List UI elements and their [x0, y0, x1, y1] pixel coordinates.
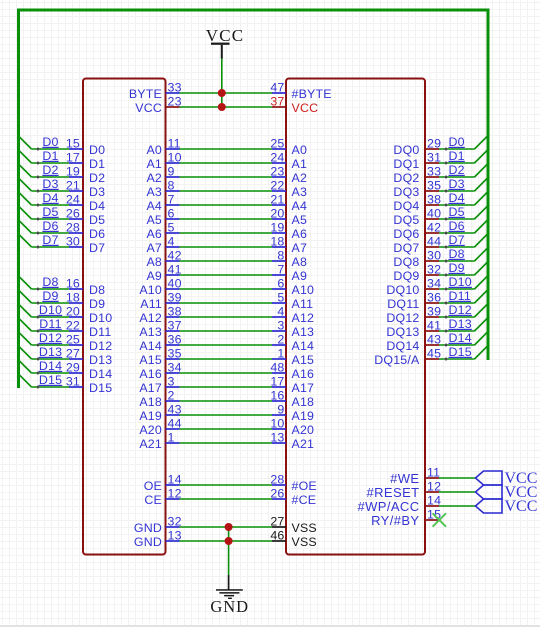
- svg-text:A14: A14: [292, 339, 315, 353]
- svg-text:A7: A7: [292, 241, 308, 255]
- svg-text:A0: A0: [146, 143, 162, 157]
- svg-text:DQ11: DQ11: [387, 297, 419, 311]
- svg-text:D3: D3: [449, 177, 465, 191]
- wire D2 to bus: [19, 164, 70, 179]
- svg-text:3: 3: [168, 375, 175, 389]
- net label D9: [42, 289, 58, 303]
- net label D2: [42, 163, 58, 177]
- pin 32 (GND) left IC: [134, 515, 182, 535]
- pin 26 (D5): [66, 207, 105, 227]
- wire D4 to bus: [19, 192, 70, 207]
- svg-text:D6: D6: [449, 219, 465, 233]
- svg-text:26: 26: [66, 207, 80, 221]
- svg-text:26: 26: [270, 487, 284, 501]
- svg-text:A2: A2: [292, 171, 308, 185]
- wire A10: [180, 288, 273, 290]
- pin 39 (DQ12): [386, 305, 441, 325]
- svg-text:20: 20: [270, 207, 284, 221]
- pin 32 (DQ9): [393, 263, 441, 283]
- net label D8: [449, 247, 465, 261]
- svg-text:D8: D8: [449, 247, 465, 261]
- pin 4 (A12) right IC: [272, 305, 314, 325]
- pin 3 (A13) right IC: [272, 319, 314, 339]
- svg-text:D4: D4: [42, 191, 58, 205]
- wire D11 to bus: [439, 291, 487, 305]
- svg-text:D3: D3: [89, 185, 105, 199]
- svg-text:D2: D2: [449, 163, 465, 177]
- wire D11 to bus: [19, 318, 70, 333]
- svg-text:D11: D11: [89, 325, 111, 339]
- net label D5: [42, 205, 58, 219]
- pin 6 (A10) right IC: [272, 277, 314, 297]
- pin 21 (A4) right IC: [270, 193, 307, 213]
- svg-text:D10: D10: [449, 275, 472, 289]
- svg-text:D8: D8: [42, 275, 58, 289]
- pin 12 (CE) left IC: [144, 487, 181, 507]
- svg-text:DQ2: DQ2: [393, 171, 419, 185]
- wire GND: [180, 540, 273, 542]
- svg-text:A4: A4: [146, 199, 162, 213]
- wire D10 to bus: [439, 277, 487, 291]
- pin 5 (A11) right IC: [272, 291, 313, 311]
- pin 36 (DQ11): [387, 291, 441, 311]
- wire D2 to bus: [439, 165, 487, 179]
- pin 5 (A6) left IC: [146, 221, 179, 241]
- svg-text:A5: A5: [146, 213, 162, 227]
- junction GND row2: [225, 537, 233, 545]
- svg-text:D14: D14: [449, 331, 472, 345]
- svg-text:GND: GND: [210, 597, 249, 616]
- wire GND vertical: [228, 527, 230, 575]
- net label D7: [42, 233, 58, 247]
- svg-text:D1: D1: [89, 157, 105, 171]
- svg-text:D9: D9: [449, 261, 465, 275]
- svg-text:18: 18: [66, 291, 80, 305]
- pin 25 (A0) right IC: [270, 137, 307, 157]
- svg-text:A3: A3: [292, 185, 308, 199]
- wire A16: [180, 372, 273, 374]
- svg-text:A2: A2: [146, 171, 162, 185]
- wire A7: [180, 246, 273, 248]
- svg-text:18: 18: [270, 235, 284, 249]
- svg-text:D9: D9: [42, 289, 58, 303]
- svg-text:22: 22: [66, 319, 80, 333]
- svg-text:A1: A1: [146, 157, 162, 171]
- svg-text:D13: D13: [39, 345, 62, 359]
- pin 25 (D12): [66, 333, 113, 353]
- wire D14 to bus: [19, 360, 70, 375]
- svg-text:11: 11: [427, 466, 440, 480]
- pin 28 (D6): [66, 221, 105, 241]
- pin 7 (A9) right IC: [272, 263, 307, 283]
- svg-text:D8: D8: [89, 283, 105, 297]
- wire A0: [180, 148, 273, 150]
- svg-text:VCC: VCC: [292, 101, 319, 115]
- svg-text:DQ3: DQ3: [393, 185, 419, 199]
- pin 42 (A8) left IC: [146, 249, 181, 269]
- pin 22 (D11): [66, 319, 112, 339]
- pin 30 (D7): [66, 235, 105, 255]
- svg-text:A9: A9: [292, 269, 308, 283]
- svg-text:46: 46: [270, 529, 284, 543]
- wire OE: [180, 484, 273, 486]
- pin 16 (D8): [66, 277, 105, 297]
- net label D3: [449, 177, 465, 191]
- svg-text:8: 8: [277, 249, 284, 263]
- ground symbol GND: [210, 575, 249, 616]
- wire A2: [180, 176, 273, 178]
- wire D1 to bus: [439, 151, 487, 165]
- svg-text:A10: A10: [292, 283, 315, 297]
- pin 18 (D9): [66, 291, 105, 311]
- wire VCC vertical: [221, 59, 223, 108]
- net label D0: [449, 135, 465, 149]
- net label D15: [449, 345, 472, 359]
- pin 7 (A4) left IC: [146, 193, 179, 213]
- pin 43 (DQ14): [386, 333, 441, 353]
- wire A20: [180, 428, 273, 430]
- pin 34 (A16) left IC: [139, 361, 181, 381]
- pin 43 (A19) left IC: [139, 403, 181, 423]
- pin 24 (D4): [66, 193, 105, 213]
- net label D15: [39, 373, 62, 387]
- net label D10: [39, 303, 62, 317]
- svg-text:GND: GND: [134, 535, 162, 549]
- pin 21 (D3): [66, 179, 105, 199]
- pin 3 (A17) left IC: [139, 375, 179, 395]
- svg-text:VCC: VCC: [135, 101, 162, 115]
- pin 41 (DQ13): [386, 319, 441, 339]
- svg-text:DQ14: DQ14: [386, 339, 419, 353]
- svg-text:A15: A15: [139, 353, 162, 367]
- wire CE: [180, 498, 273, 500]
- wire D8 to bus: [439, 249, 487, 263]
- svg-text:D13: D13: [89, 353, 112, 367]
- svg-text:D0: D0: [42, 135, 58, 149]
- net label D14: [39, 359, 62, 373]
- svg-text:D0: D0: [89, 143, 105, 157]
- svg-text:17: 17: [270, 375, 284, 389]
- svg-text:D14: D14: [39, 359, 62, 373]
- svg-text:4: 4: [168, 235, 175, 249]
- svg-text:31: 31: [66, 375, 80, 389]
- svg-text:27: 27: [270, 515, 284, 529]
- pin 20 (D10): [66, 305, 113, 325]
- svg-text:48: 48: [270, 361, 284, 375]
- svg-text:9: 9: [277, 403, 284, 417]
- svg-text:A20: A20: [139, 423, 162, 437]
- net label D13: [39, 345, 62, 359]
- wire A12: [180, 316, 273, 318]
- svg-text:BYTE: BYTE: [129, 87, 162, 101]
- pin 16 (A18) right IC: [270, 389, 314, 409]
- pin 17 (D1): [66, 151, 105, 171]
- svg-text:D7: D7: [89, 241, 105, 255]
- pin 23 (A2) right IC: [270, 165, 307, 185]
- svg-text:D15: D15: [89, 381, 112, 395]
- pin 33 (DQ2): [393, 165, 441, 185]
- wire A17: [180, 386, 273, 388]
- pin 1 (A21) left IC: [139, 431, 179, 451]
- svg-text:A5: A5: [292, 213, 308, 227]
- pin 24 (A1) right IC: [270, 151, 307, 171]
- svg-text:2: 2: [277, 333, 284, 347]
- wire D15 to bus: [19, 374, 70, 389]
- svg-text:D4: D4: [449, 191, 465, 205]
- power port VCC (#WE): [476, 470, 538, 487]
- pin 15 (D0): [66, 137, 105, 157]
- wire A13: [180, 330, 273, 332]
- net label D0: [42, 135, 58, 149]
- pin 45 (DQ15/A): [374, 347, 441, 367]
- svg-text:2: 2: [168, 389, 175, 403]
- svg-text:A21: A21: [139, 437, 162, 451]
- wire A11: [180, 302, 273, 304]
- svg-text:D7: D7: [42, 233, 58, 247]
- svg-text:A16: A16: [139, 367, 162, 381]
- svg-text:1: 1: [277, 347, 284, 361]
- svg-text:RY/#BY: RY/#BY: [371, 513, 419, 528]
- svg-text:19: 19: [66, 165, 80, 179]
- svg-text:DQ5: DQ5: [393, 213, 419, 227]
- svg-text:A8: A8: [146, 255, 162, 269]
- svg-text:VCC: VCC: [206, 26, 245, 45]
- pin 23 (VCC) left IC: [135, 95, 181, 115]
- power port VCC (#RESET): [476, 484, 538, 501]
- svg-text:D15: D15: [449, 345, 472, 359]
- pin 6 (A5) left IC: [146, 207, 179, 227]
- pin 10 (A1) left IC: [146, 151, 181, 171]
- pin 18 (A7) right IC: [270, 235, 307, 255]
- wire #RESET to VCC: [439, 491, 476, 493]
- svg-text:6: 6: [168, 207, 175, 221]
- svg-text:1: 1: [168, 431, 175, 445]
- svg-text:VSS: VSS: [292, 521, 317, 535]
- wire D13 to bus: [19, 346, 70, 361]
- wire D9 to bus: [19, 290, 70, 305]
- wire A6: [180, 232, 273, 234]
- svg-text:21: 21: [270, 193, 284, 207]
- wire D5 to bus: [439, 207, 487, 221]
- pin 36 (A14) left IC: [139, 333, 181, 353]
- wire A1: [180, 162, 273, 164]
- wire D4 to bus: [439, 193, 487, 207]
- pin 11 (#WE): [390, 466, 440, 486]
- wire A9: [180, 274, 273, 276]
- net label D13: [449, 317, 472, 331]
- pin 38 (DQ4): [393, 193, 441, 213]
- svg-text:D12: D12: [39, 331, 62, 345]
- net label D1: [449, 149, 465, 163]
- pin 8 (A8) right IC: [272, 249, 307, 269]
- net label D11: [39, 317, 61, 331]
- svg-text:D10: D10: [39, 303, 62, 317]
- svg-text:DQ8: DQ8: [393, 255, 419, 269]
- wire GND: [180, 526, 273, 528]
- wire A5: [180, 218, 273, 220]
- svg-text:11: 11: [168, 137, 181, 151]
- pin 35 (DQ3): [393, 179, 441, 199]
- svg-text:A18: A18: [292, 395, 315, 409]
- pin 1 (A15) right IC: [272, 347, 314, 367]
- pin 14 (#WP/ACC): [357, 494, 441, 514]
- wire D0 to bus: [439, 137, 487, 151]
- pin 15 (RY/#BY): [371, 508, 441, 528]
- pin 35 (A15) left IC: [139, 347, 181, 367]
- no-connect marker X: [433, 513, 446, 526]
- svg-text:A6: A6: [146, 227, 162, 241]
- svg-text:29: 29: [66, 361, 80, 375]
- wire D12 to bus: [439, 305, 487, 319]
- svg-text:6: 6: [277, 277, 284, 291]
- net label D2: [449, 163, 465, 177]
- svg-text:A9: A9: [146, 269, 162, 283]
- svg-text:#WE: #WE: [390, 471, 419, 486]
- svg-text:A21: A21: [292, 437, 315, 451]
- svg-text:D2: D2: [89, 171, 105, 185]
- svg-text:D14: D14: [89, 367, 112, 381]
- pin 27 (VSS) right IC: [270, 515, 317, 535]
- data bus D[0..15]: [19, 10, 489, 388]
- power symbol VCC (top): [206, 26, 245, 59]
- wire D8 to bus: [19, 276, 70, 291]
- svg-text:D12: D12: [89, 339, 112, 353]
- svg-text:D11: D11: [39, 317, 61, 331]
- svg-text:16: 16: [66, 277, 80, 291]
- svg-text:A16: A16: [292, 367, 315, 381]
- svg-text:24: 24: [66, 193, 80, 207]
- svg-text:9: 9: [168, 165, 175, 179]
- pin 28 (#OE) right IC: [270, 473, 317, 493]
- pin 37 (VCC) right IC: [270, 95, 318, 115]
- svg-text:GND: GND: [134, 521, 162, 535]
- svg-text:DQ4: DQ4: [393, 199, 419, 213]
- svg-text:D0: D0: [449, 135, 465, 149]
- net label D6: [42, 219, 58, 233]
- pin 37 (A13) left IC: [139, 319, 181, 339]
- pin 33 (BYTE) left IC: [129, 81, 182, 101]
- wire D7 to bus: [19, 234, 70, 249]
- wire A3: [180, 190, 273, 192]
- svg-text:13: 13: [270, 431, 284, 445]
- net label D4: [42, 191, 58, 205]
- pin 10 (A20) right IC: [270, 417, 314, 437]
- svg-text:D5: D5: [449, 205, 465, 219]
- svg-text:D4: D4: [89, 199, 105, 213]
- svg-text:5: 5: [277, 291, 284, 305]
- pin 31 (DQ1): [393, 151, 441, 171]
- svg-text:D5: D5: [42, 205, 58, 219]
- net label D10: [449, 275, 472, 289]
- wire A14: [180, 344, 273, 346]
- svg-text:23: 23: [270, 165, 284, 179]
- net label D6: [449, 219, 465, 233]
- pin 27 (D13): [66, 347, 113, 367]
- pin 8 (A3) left IC: [146, 179, 179, 199]
- svg-text:D1: D1: [449, 149, 465, 163]
- svg-text:27: 27: [66, 347, 80, 361]
- svg-text:#CE: #CE: [292, 493, 317, 507]
- wire #WE to VCC: [439, 477, 476, 479]
- pin 9 (A2) left IC: [146, 165, 179, 185]
- svg-text:DQ13: DQ13: [386, 325, 419, 339]
- wire A18: [180, 400, 273, 402]
- net label D8: [42, 275, 58, 289]
- pin 34 (DQ10): [386, 277, 441, 297]
- svg-text:3: 3: [277, 319, 284, 333]
- pin 17 (A17) right IC: [270, 375, 314, 395]
- svg-text:#OE: #OE: [292, 479, 317, 493]
- pin 44 (A20) left IC: [139, 417, 181, 437]
- pin 44 (DQ7): [393, 235, 441, 255]
- pin 4 (A7) left IC: [146, 235, 179, 255]
- svg-text:37: 37: [270, 95, 284, 109]
- pin 26 (#CE) right IC: [270, 487, 316, 507]
- pin 46 (VSS) right IC: [270, 529, 317, 549]
- svg-text:7: 7: [168, 193, 175, 207]
- svg-text:A0: A0: [292, 143, 308, 157]
- net label D11: [449, 289, 471, 303]
- svg-text:D2: D2: [42, 163, 58, 177]
- svg-text:A1: A1: [292, 157, 308, 171]
- pin 40 (DQ5): [393, 207, 441, 227]
- svg-text:A8: A8: [292, 255, 308, 269]
- wire A8: [180, 260, 273, 262]
- svg-text:25: 25: [270, 137, 284, 151]
- power port VCC (#WP/ACC): [476, 498, 538, 515]
- svg-text:19: 19: [270, 221, 284, 235]
- svg-text:20: 20: [66, 305, 80, 319]
- net label D9: [449, 261, 465, 275]
- wire A4: [180, 204, 273, 206]
- svg-text:A3: A3: [146, 185, 162, 199]
- pin 19 (D2): [66, 165, 105, 185]
- pin 29 (DQ0): [393, 137, 441, 157]
- pin 40 (A10) left IC: [139, 277, 181, 297]
- svg-text:22: 22: [270, 179, 284, 193]
- pin 39 (A11) left IC: [140, 291, 181, 311]
- svg-text:D13: D13: [449, 317, 472, 331]
- net label D14: [449, 331, 472, 345]
- svg-text:#WP/ACC: #WP/ACC: [357, 499, 419, 514]
- svg-text:DQ10: DQ10: [386, 283, 419, 297]
- svg-text:A13: A13: [292, 325, 315, 339]
- wire D14 to bus: [439, 333, 487, 347]
- svg-text:VSS: VSS: [292, 535, 317, 549]
- svg-text:DQ7: DQ7: [393, 241, 419, 255]
- svg-text:#BYTE: #BYTE: [292, 87, 332, 101]
- pin 14 (OE) left IC: [144, 473, 182, 493]
- pin 2 (A18) left IC: [139, 389, 179, 409]
- pin 13 (GND) left IC: [134, 529, 182, 549]
- pin 29 (D14): [66, 361, 113, 381]
- svg-text:A10: A10: [139, 283, 162, 297]
- wire D5 to bus: [19, 206, 70, 221]
- pin 13 (A21) right IC: [270, 431, 314, 451]
- svg-text:VCC: VCC: [505, 498, 538, 515]
- svg-text:D5: D5: [89, 213, 105, 227]
- svg-text:A17: A17: [139, 381, 162, 395]
- net label D1: [42, 149, 58, 163]
- svg-text:5: 5: [168, 221, 175, 235]
- svg-text:16: 16: [270, 389, 284, 403]
- svg-text:A18: A18: [139, 395, 162, 409]
- svg-text:4: 4: [277, 305, 284, 319]
- svg-text:A11: A11: [140, 297, 162, 311]
- svg-text:D3: D3: [42, 177, 58, 191]
- junction GND row1: [225, 523, 233, 531]
- wire D13 to bus: [439, 319, 487, 333]
